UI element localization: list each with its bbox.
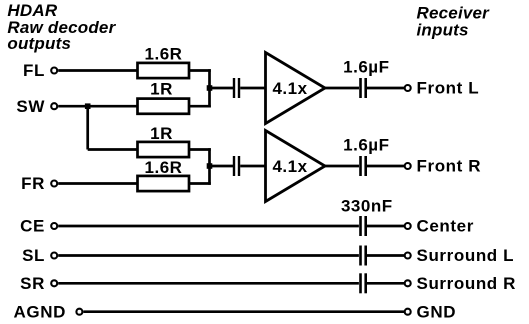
svg-text:GND: GND [417, 302, 457, 321]
svg-text:4.1x: 4.1x [272, 79, 307, 98]
svg-text:inputs: inputs [417, 20, 469, 39]
svg-text:FL: FL [23, 61, 45, 80]
svg-text:Surround R: Surround R [417, 274, 517, 293]
svg-text:Center: Center [417, 217, 474, 236]
svg-text:SL: SL [22, 246, 45, 265]
svg-text:1R: 1R [150, 124, 173, 143]
svg-text:outputs: outputs [7, 34, 71, 53]
svg-text:Surround L: Surround L [417, 246, 515, 265]
svg-text:SR: SR [20, 274, 45, 293]
svg-text:SW: SW [16, 97, 45, 116]
svg-text:1.6R: 1.6R [145, 45, 183, 64]
svg-text:CE: CE [20, 217, 45, 236]
svg-text:1.6µF: 1.6µF [343, 58, 389, 77]
svg-text:FR: FR [21, 174, 45, 193]
svg-text:Front L: Front L [417, 79, 480, 98]
svg-text:1.6µF: 1.6µF [343, 136, 389, 155]
svg-text:Front R: Front R [417, 157, 482, 176]
svg-text:1R: 1R [150, 79, 173, 98]
svg-text:4.1x: 4.1x [272, 157, 307, 176]
svg-text:1.6R: 1.6R [145, 158, 183, 177]
svg-text:330nF: 330nF [341, 197, 393, 216]
svg-text:AGND: AGND [14, 302, 66, 321]
